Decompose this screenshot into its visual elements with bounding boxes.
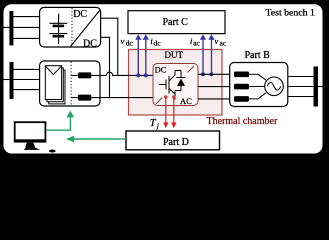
- Tj arrow 2: [173, 98, 175, 122]
- AC wire converter to Part B (phase 1): [198, 73, 234, 75]
- wire bus to supply box (phase 3): [14, 89, 40, 91]
- fan wire B3 to source: [249, 93, 266, 99]
- AC source circle: [265, 77, 284, 96]
- dashed divider battery box: [71, 8, 73, 46]
- Part B box: [230, 63, 288, 107]
- connector block lower (supply box): [78, 95, 91, 101]
- measurement arrow i_dc: [145, 39, 147, 76]
- dc/dc upper output wire: [101, 18, 118, 75]
- battery + DC/DC converter box: [40, 7, 101, 47]
- slash top-right converter: [188, 66, 195, 73]
- wire Part B to bus (2): [288, 86, 314, 88]
- upper DC wire supply to converter (with hump): [91, 72, 153, 75]
- wire bus to supply box (phase 1): [14, 68, 40, 70]
- DC/AC converter box (DUT module): [153, 64, 198, 106]
- stub divider to lower block: [71, 97, 78, 99]
- svg-text:v: v: [121, 36, 125, 46]
- fan wire B1 to source: [249, 74, 266, 80]
- DC/DC diagonal: [71, 10, 101, 47]
- svg-text:DC: DC: [83, 39, 97, 50]
- svg-text:AC: AC: [180, 96, 192, 106]
- AC wire converter to Part B (phase 2): [198, 86, 234, 88]
- svg-text:DUT: DUT: [165, 50, 184, 60]
- bus bar upper-left: [9, 11, 13, 45]
- svg-text:DC: DC: [73, 9, 87, 20]
- mouse: [49, 150, 56, 153]
- lower DC wire supply to converter: [91, 97, 153, 99]
- paper stack icon front sheet: [45, 66, 61, 100]
- paper stack icon sheet 2: [47, 68, 63, 102]
- node dot v_ac: [210, 72, 214, 76]
- frame panel: [4, 4, 323, 153]
- Tj arrow 1: [163, 98, 176, 128]
- dc/dc lower output wire (crosses via hump): [101, 37, 110, 97]
- slash bottom-left converter: [156, 98, 162, 104]
- wire bus to supply box (phase 2): [14, 79, 40, 81]
- wire border to upper bus: [3, 26, 9, 28]
- wire border to lower bus: [3, 79, 10, 81]
- svg-text:dc: dc: [126, 39, 134, 48]
- node dot v_dc: [136, 73, 140, 77]
- wire bus to border right: [318, 86, 323, 88]
- svg-text:DC: DC: [155, 64, 167, 74]
- wire Part B to bus (1): [288, 76, 314, 78]
- connector block B1: [234, 72, 249, 78]
- svg-text:Part D: Part D: [163, 137, 189, 148]
- V flap on front sheet: [46, 66, 62, 74]
- svg-text:v: v: [215, 36, 219, 46]
- svg-text:Test bench 1: Test bench 1: [266, 8, 315, 19]
- connector block B3: [234, 96, 249, 102]
- wire bus to battery box (phase 1): [13, 16, 39, 18]
- bus bar right: [314, 67, 319, 107]
- wire bus to battery box (phase 3): [13, 37, 39, 39]
- dashed divider supply box: [70, 62, 72, 106]
- wire bus to battery box (phase 2): [13, 26, 39, 28]
- bus bar lower-left: [10, 62, 14, 99]
- node dot i_ac: [201, 72, 205, 76]
- monitor: [14, 121, 56, 152]
- battery symbol: [50, 14, 68, 45]
- Part D box: [126, 131, 220, 150]
- AC supply box: [40, 61, 100, 106]
- Part C box: [128, 11, 225, 34]
- svg-text:ac: ac: [220, 39, 227, 48]
- AC wire converter to Part B (phase 3): [198, 98, 234, 100]
- measurement arrow v_ac: [211, 39, 213, 75]
- connector block upper (supply box): [78, 72, 91, 78]
- green feedback wire Part D to PC: [74, 138, 127, 140]
- svg-text:dc: dc: [154, 39, 162, 48]
- DUT thermal chamber box: [129, 50, 223, 116]
- measurement arrow i_ac: [202, 39, 204, 75]
- paper stack icon sheet 3: [49, 70, 65, 104]
- sine wave: [267, 83, 281, 91]
- svg-text:ac: ac: [193, 39, 200, 48]
- stub divider to upper block: [71, 74, 78, 76]
- Tj sensor dot 2: [172, 95, 175, 98]
- node dot i_dc: [144, 73, 148, 77]
- IGBT symbol: [159, 71, 186, 100]
- svg-text:j: j: [156, 122, 159, 130]
- fan wire B2 to source: [249, 85, 265, 87]
- connector block B2: [234, 84, 249, 90]
- green control wire PC to supply: [46, 111, 126, 143]
- wire Part B to bus (3): [288, 96, 314, 98]
- svg-text:Part C: Part C: [163, 17, 189, 28]
- svg-text:Part B: Part B: [245, 50, 271, 61]
- measurement arrow v_dc: [135, 34, 214, 77]
- Tj sensor dot 1: [164, 95, 167, 98]
- svg-text:Thermal chamber: Thermal chamber: [207, 116, 278, 127]
